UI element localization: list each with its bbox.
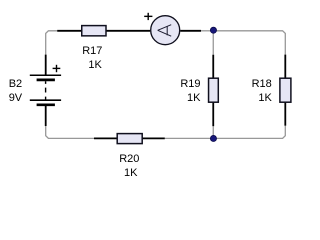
svg-text:9V: 9V	[9, 92, 23, 104]
battery B2 cell 2 long plate	[30, 99, 61, 101]
battery B2 dashed link	[45, 81, 47, 99]
wire: ammeter right lead to top junction (gray routed)	[201, 30, 213, 32]
wire: R19 top lead (black)	[212, 55, 214, 78]
svg-text:1K: 1K	[187, 92, 201, 104]
svg-text:1K: 1K	[124, 167, 138, 179]
wire: R18 bottom to bottom-right corner back to bottom junction (gray routed)	[213, 126, 285, 139]
wire: R17 left lead (black)	[57, 30, 82, 32]
wire: top junction to top-right corner down to R18 (gray routed)	[213, 31, 285, 55]
battery B2 cell 1 long plate	[30, 74, 61, 76]
ammeter plus sign	[144, 13, 152, 20]
node: top junction	[210, 27, 216, 33]
wire: battery top pin (black)	[45, 55, 47, 76]
resistor R20 body	[117, 134, 142, 144]
svg-text:R18: R18	[252, 78, 272, 90]
wire: battery bottom pin (black)	[45, 105, 47, 126]
wire: ammeter right lead (black)	[180, 30, 201, 32]
wire: top junction down toward R19 (gray routed)	[212, 33, 214, 55]
ammeter rotated-A symbol	[158, 25, 172, 37]
node: bottom junction	[210, 135, 216, 141]
svg-text:R20: R20	[119, 153, 139, 165]
battery B2 cell 2 short plate	[37, 103, 55, 106]
battery B2 cell 1 short plate	[37, 78, 55, 81]
wire: R19 bottom lead (black)	[212, 102, 214, 126]
resistor R18 body	[280, 78, 291, 102]
wire: R18 bottom lead (black)	[284, 102, 286, 126]
wire: bottom-left corner, battery bottom to R20 (gray routed)	[46, 126, 94, 138]
ammeter body circle	[151, 16, 180, 45]
resistor R17 body	[82, 26, 106, 36]
svg-text:R19: R19	[180, 78, 200, 90]
wire: R20 right lead (black)	[142, 137, 165, 139]
battery B2 plus sign	[53, 65, 61, 72]
svg-text:1K: 1K	[258, 92, 272, 104]
wire: top-left corner, battery top to R17 (gray routed)	[46, 31, 58, 55]
wire: R20 right lead to bottom junction (gray routed)	[165, 137, 214, 139]
wire: R20 left lead (black)	[94, 137, 117, 139]
svg-text:R17: R17	[82, 45, 102, 57]
svg-text:B2: B2	[9, 78, 22, 90]
resistor R19 body	[209, 78, 219, 102]
svg-text:1K: 1K	[88, 59, 102, 71]
wire: R17 right lead to ammeter left lead (black)	[106, 30, 150, 32]
wire: R18 top lead (black)	[284, 55, 286, 79]
wire: R19 bottom to bottom junction (gray routed)	[212, 126, 214, 138]
